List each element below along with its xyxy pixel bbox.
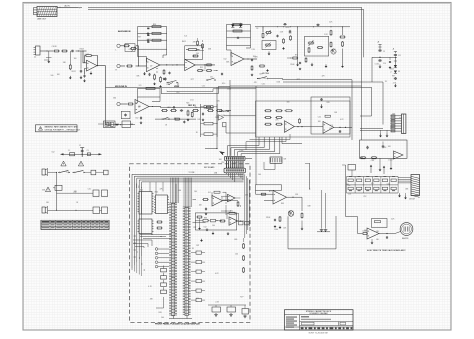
resistor R408 [299,118,301,123]
mid parts 195 [195,39,204,56]
IC U3 [138,219,154,234]
resistor R309 [342,41,344,47]
label board2 [214,173,217,175]
svg-text:C10: C10 [383,63,386,65]
channel B extra parts [276,26,291,50]
resistor R403 [264,117,271,119]
svg-text:MUTING: MUTING [262,73,270,75]
svg-text:C304: C304 [274,229,278,231]
transistor Q301 [331,49,336,54]
relay K1 [98,121,119,128]
jack J201 [116,44,124,51]
CN901 pins [391,116,402,131]
resistor R303 [262,33,264,39]
value labels left bottom [42,152,91,204]
ground G302 [296,63,299,66]
wire cn403 drop [264,162,275,170]
svg-text:IC3: IC3 [330,125,333,127]
CN901 resistors [391,115,395,132]
remote fb box [372,219,388,228]
resistor R row4 [192,110,199,112]
power col2 cap C903 [394,52,397,57]
svg-text:R45: R45 [159,312,162,314]
op-amp IC R1 [367,228,379,239]
label to key [189,172,195,174]
svg-text:220: 220 [245,194,248,196]
cap C R1 [386,236,388,239]
resistor R308 [339,26,345,38]
resistor R405 [264,123,271,125]
box tape head [121,111,130,118]
svg-text:R52: R52 [200,67,203,69]
svg-text:680: 680 [289,33,292,35]
svg-text:AC IN: AC IN [65,5,71,8]
op-amp IC4 [229,217,238,226]
bus right edge [245,174,250,238]
wire IC3 out [223,200,239,201]
row2 wires [195,197,240,221]
resistor R304 [308,47,310,53]
strip top wires [171,178,179,204]
gap parts 2 [248,59,269,77]
bus y82 [283,81,383,83]
svg-text:C52: C52 [363,196,366,198]
resistor R input4 [219,220,225,222]
svg-text:Z: Z [391,72,392,74]
connector CN401 pins [226,161,244,168]
svg-text:C52: C52 [51,152,54,154]
resistor R F2 [301,212,303,218]
svg-text:AUX/LINE IN: AUX/LINE IN [118,30,131,33]
svg-text:IC3: IC3 [196,298,199,300]
gap parts 3 [287,57,307,70]
op-amp IC201 [147,58,161,71]
op-amp IC401 [285,121,295,133]
wire spk2 [48,210,93,211]
pot VR302 [308,41,314,47]
wire v371 [360,87,372,116]
cap C402 [339,130,341,133]
svg-text:IC2: IC2 [140,190,143,192]
capacitor C102 [80,51,82,73]
interior labels [196,192,237,247]
row tape eq [160,106,214,108]
gap labels [200,55,298,86]
svg-text:C52: C52 [204,227,207,229]
svg-text:C16: C16 [262,83,265,85]
svg-text:R77: R77 [269,191,272,193]
bus step1 [161,87,230,94]
wire v383 [382,82,384,125]
wire E mid [294,126,323,127]
svg-text:CN OUT: CN OUT [409,199,415,201]
connector strip CN5 [169,203,177,316]
svg-text:C52: C52 [223,59,226,61]
svg-text:C88: C88 [405,189,408,191]
wire F out [287,197,303,211]
svg-text:C64: C64 [212,225,215,227]
bus y80 [269,79,353,80]
box B5 [93,207,100,214]
op-amp IC402 [323,122,334,134]
cap bank C11 [242,309,249,318]
box B3 [57,190,100,197]
power col1 cap C902 [378,59,381,62]
value labels E block [275,102,344,130]
svg-text:C52: C52 [318,117,321,119]
wire opamp out [97,65,106,66]
ground G SB [379,158,382,171]
jack J203 [117,102,127,105]
wire fan harness [228,137,280,156]
wire caps [208,305,246,309]
resistor R input [202,199,208,201]
wire remote out [379,233,395,234]
cap C F1 [274,219,276,222]
wire v309 [305,163,310,189]
ground G R1 [371,239,374,244]
top rail B [255,26,350,28]
power col1 node [372,57,397,58]
wire y133 [226,127,256,133]
wire input [40,51,53,52]
resistor SB2 [371,157,377,159]
ground bar G F5 [317,229,330,232]
diode DB2 [239,23,242,28]
svg-text:C52: C52 [202,86,205,88]
svg-text:100: 100 [235,254,238,256]
dashed box [130,164,251,322]
opamp A1 area extra [156,64,173,80]
cap SB1 [366,146,369,150]
svg-text:R612: R612 [286,27,290,29]
ground G205 [187,119,190,122]
resistor R211 [107,123,111,126]
label MUTE [262,73,270,75]
svg-text:0.01: 0.01 [221,115,224,117]
svg-text:680: 680 [138,106,141,108]
loop big F [288,216,336,249]
svg-text:REMOTE: REMOTE [402,238,408,240]
op-amp IC202 [185,59,196,70]
fb ladder B1 [227,25,251,46]
svg-text:C31: C31 [210,77,213,79]
resistor R305 [317,47,323,49]
sub block B2 [305,36,329,56]
capacitor C206 [202,112,204,115]
wire stack [156,297,164,308]
svg-text:R612: R612 [390,68,394,70]
resistor R row5 [207,110,214,112]
ground bar G F4 [320,229,324,232]
routing into U1 [137,184,142,189]
cap bank C9 [212,307,221,316]
interior wires extra [193,200,232,223]
svg-text:D3: D3 [398,71,400,73]
svg-text:220: 220 [348,194,351,196]
resistor Rr2b [211,219,216,222]
svg-text:R45: R45 [198,119,201,121]
resistor R406 [275,123,282,125]
value labels power [375,64,397,85]
svg-text:C40: C40 [196,53,199,55]
warning tri W3 [45,187,50,192]
value labels channel A [128,36,231,94]
ground G901 [379,65,382,69]
label board1 [204,166,215,169]
svg-text:C304: C304 [147,39,151,41]
ground G401 [320,104,323,108]
svg-text:C52: C52 [221,162,224,164]
wire lower row [106,124,136,126]
svg-text:4-KEY REMOTE TIMER JACK BOARD: 4-KEY REMOTE TIMER JACK BOARD ASSY [367,249,406,252]
wire sw [85,171,91,173]
sub board box [360,140,408,158]
svg-text:TO CN8: TO CN8 [189,172,195,174]
power labels [383,51,401,73]
svg-text:J1: J1 [34,57,36,59]
svg-text:C88: C88 [371,160,374,162]
svg-text:R612: R612 [182,41,186,43]
svg-text:C9: C9 [383,51,385,53]
jack SPK1 [42,168,48,175]
connector CN902 [409,175,420,201]
connector CN402 pins [227,173,243,182]
svg-text:R77: R77 [191,79,194,81]
wire B rails [135,97,160,103]
ground G F1 [301,221,304,231]
pot VR301 [265,30,271,36]
power col1 cap C901 [378,45,381,52]
svg-text:S2-1: S2-1 [222,83,225,85]
ground G CN1 [379,130,382,137]
wire A in [136,46,147,67]
jack J202 [116,64,126,71]
ladder A marks [147,28,149,43]
capacitor C103 [83,74,85,78]
svg-text:R612: R612 [215,117,219,119]
caption under page [308,332,327,334]
ground G303 [311,63,314,67]
resistor R row3 [187,110,189,116]
svg-text:100: 100 [66,172,69,174]
svg-text:680: 680 [234,239,237,241]
edge components col [243,243,245,273]
wire spk row [48,172,57,173]
stage A2 loop [185,46,203,60]
connector CN401 housing [225,156,246,160]
svg-text:R45: R45 [217,101,220,103]
ground G F2 [279,226,282,229]
title block [285,310,354,330]
wire v56 [56,172,58,210]
op-amp IC4b [228,194,236,202]
wire out down [105,66,107,126]
svg-text:CN7: CN7 [196,245,199,247]
resistor R F1 [260,193,266,195]
svg-text:IC3: IC3 [168,107,171,109]
diode DB1 [231,23,234,28]
bus harness left [132,174,244,268]
svg-text:MIC/LINE IN: MIC/LINE IN [115,86,127,88]
wire IC4 out [238,220,245,222]
svg-text:REC EQ: REC EQ [188,105,196,107]
wire A out [160,64,185,65]
resistor R103 [69,51,71,70]
svg-text:680: 680 [113,98,116,100]
resistor stack R5x [161,266,167,294]
gap parts 1 [197,64,223,80]
wire top rail to right [78,7,364,10]
row 119 [155,117,196,123]
loop F [256,185,282,191]
resistor R row2 [170,110,177,112]
resistor R402 [275,110,282,112]
switch S301 [257,77,269,80]
ground G301 [268,52,271,56]
sw area extra [169,82,180,87]
wire v256 [255,86,257,185]
resistor R204 [126,65,133,67]
resistor R R1 [362,233,368,235]
resistor R202 [147,33,161,35]
value labels dashed interior [148,189,248,319]
ground G104 [83,79,86,82]
misc inside1 [196,216,202,230]
svg-text:C3: C3 [87,150,89,152]
wire row [226,110,232,112]
resistor R105 feedback [85,55,98,66]
svg-text:R45: R45 [281,203,284,205]
capacitor C203 [164,77,166,80]
svg-text:R108: R108 [80,49,84,51]
svg-text:C52: C52 [135,118,138,120]
svg-text:L: L [116,50,117,52]
svg-text:C11: C11 [398,55,401,57]
connector J101 [34,46,41,59]
wire y1158 [224,115,256,117]
resistor R207 [186,49,200,51]
svg-text:R77: R77 [390,127,393,129]
connector CN402 housing [224,168,246,173]
svg-text:R15: R15 [153,24,156,26]
svg-text:680: 680 [329,128,332,130]
svg-text:IC3: IC3 [184,36,187,38]
resistor cluster U3r [156,221,162,229]
switch S201 [167,81,179,88]
resistor R409 fb2 [325,115,330,117]
svg-text:R108: R108 [290,64,294,66]
op-amp IC5 [273,191,287,205]
svg-text:C304: C304 [362,231,366,233]
ground G201 [143,72,146,75]
wire v217 [205,87,218,149]
diode D901 [394,57,397,68]
svg-text:KEY BOARD: KEY BOARD [204,166,215,169]
svg-text:R77: R77 [297,79,300,81]
svg-text:R77: R77 [392,76,395,78]
routing TL [133,240,152,248]
switch SW2 [73,170,86,173]
caption board [155,323,201,326]
value labels array [346,183,408,198]
svg-text:100: 100 [161,317,164,319]
connector strip CN6 [183,207,191,316]
pot VR201 [125,44,137,52]
wire A2 out [195,64,215,65]
warning tri W1 [61,161,66,166]
series cap chain [60,145,102,157]
svg-text:0.022: 0.022 [85,54,89,56]
svg-text:0.022: 0.022 [388,160,392,162]
resistor R306 [330,26,332,36]
svg-text:SCHEMATIC DIAGRAM: SCHEMATIC DIAGRAM [309,312,328,315]
resistor array RA901 [347,177,399,194]
resistor R203 [123,45,130,47]
label DOLBY [219,111,230,113]
wire fan right [282,137,302,144]
ground G305 [341,49,344,68]
resistor R206 [160,76,162,82]
feedback ladder L1 [138,27,167,50]
box CN403 [270,157,287,163]
wire remote in [346,217,363,234]
wire SB chain [360,157,363,159]
box B2 [96,170,108,175]
svg-text:C16: C16 [176,92,179,94]
resistor R210 [127,103,134,105]
svg-text:C304: C304 [233,163,237,165]
value labels comb area [219,150,261,176]
ground G102 [80,76,83,80]
resistor R out3 [237,201,239,207]
svg-text:C304: C304 [239,150,243,152]
ground G204 [140,121,143,124]
wire top rail A [57,7,78,8]
capacitor C201 [147,39,161,41]
boxes edge [239,222,250,225]
ground G902 [394,84,397,88]
ground G101 [69,76,72,80]
svg-text:C88: C88 [166,84,169,86]
wire B1 [227,46,251,57]
cap SB2 [382,142,385,149]
array marks [349,176,395,191]
svg-text:LINE OUT: LINE OUT [37,19,47,21]
op-amp IC3 [212,196,223,207]
svg-text:C16: C16 [52,46,55,48]
array grounds [398,193,407,199]
ground G IC4 [200,228,229,242]
resistor R101 [53,50,60,52]
svg-text:C304: C304 [227,89,231,91]
ground G103 [90,71,93,75]
svg-text:680: 680 [178,190,181,192]
array top arrows [370,165,385,174]
capacitor C401 [320,98,323,101]
bus y86 [230,85,362,87]
strip bottom tails [169,316,192,319]
wire v345 [342,165,346,217]
svg-text:C304: C304 [276,82,280,84]
bus tick marks [134,236,145,271]
switch SW1 [58,170,70,173]
value labels lower A [110,98,224,135]
warning box [36,125,81,132]
resistor R307 [330,42,332,48]
svg-text:FRONT PANEL PCB ASSY (1/2) KEY: FRONT PANEL PCB ASSY (1/2) KEY/DISPLAY [155,323,201,326]
svg-text:R45: R45 [186,103,189,105]
